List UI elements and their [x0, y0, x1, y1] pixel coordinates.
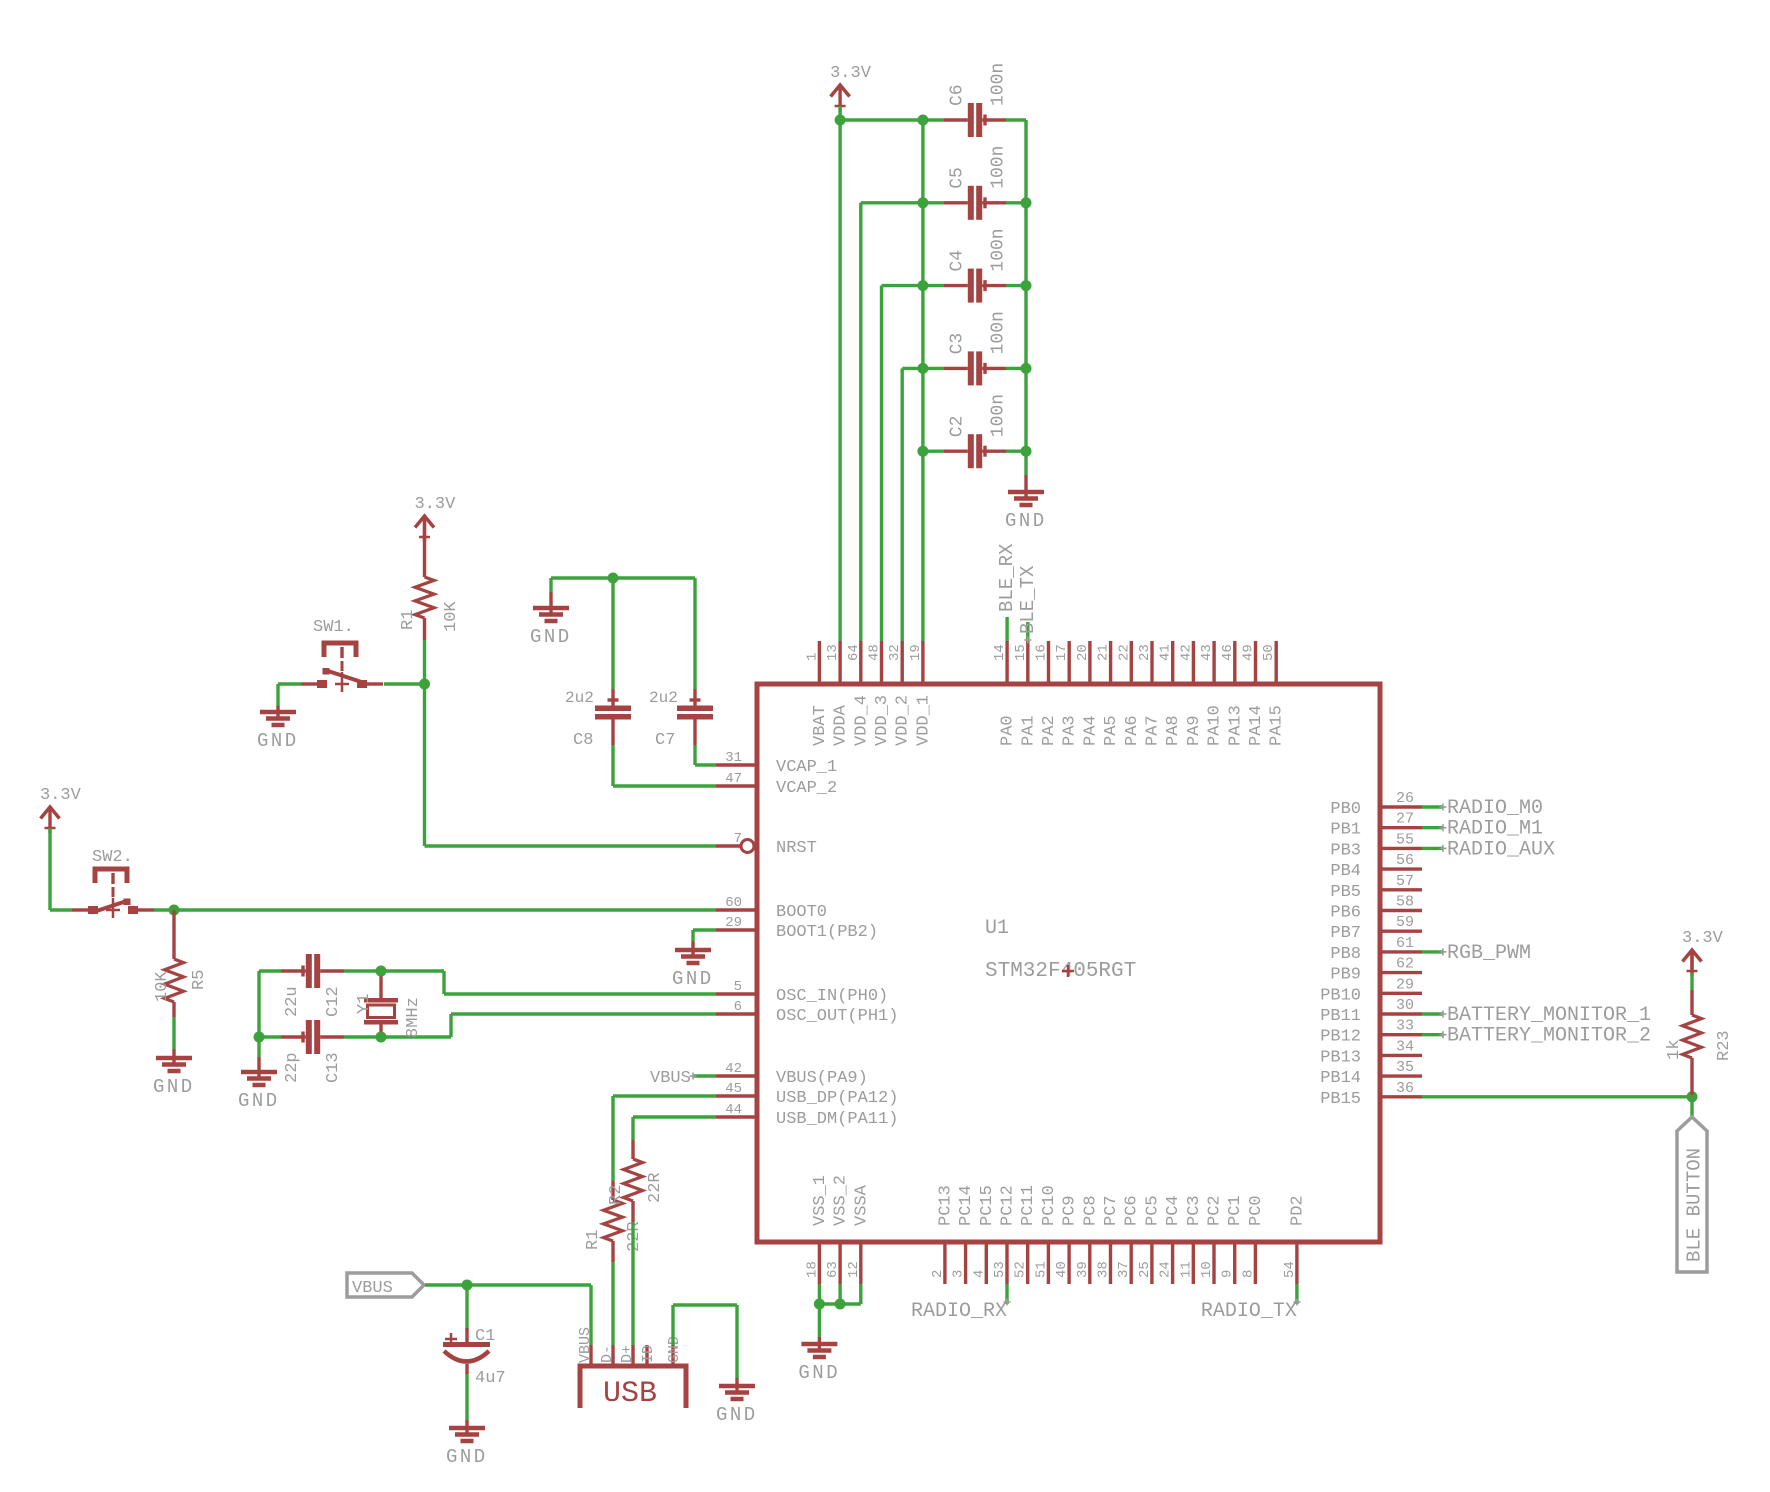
wire cap row C2 [923, 450, 1006, 453]
svg-text:PC12: PC12 [999, 1185, 1018, 1226]
svg-text:PB0: PB0 [1330, 800, 1361, 819]
svg-text:10K: 10K [153, 971, 172, 1002]
power symbol 3.3V (SW2) [40, 786, 82, 833]
svg-text:39: 39 [1075, 1261, 1091, 1278]
ground GND (cap bank) [1005, 490, 1047, 532]
svg-text:D-: D- [599, 1345, 616, 1363]
svg-text:GND: GND [798, 1362, 840, 1384]
resistor R2 22R (USB D-) [607, 1117, 665, 1345]
svg-text:VSSA: VSSA [852, 1184, 871, 1226]
svg-text:PA0: PA0 [999, 715, 1018, 746]
svg-text:100n: 100n [989, 63, 1009, 106]
svg-text:PA1: PA1 [1019, 715, 1038, 746]
svg-text:PA8: PA8 [1164, 715, 1183, 746]
svg-text:R23: R23 [1715, 1030, 1734, 1061]
capacitor C6 100n [948, 63, 1009, 137]
resistor R1 22R (USB D+) [584, 1096, 644, 1345]
svg-text:22u: 22u [283, 986, 302, 1017]
svg-text:6: 6 [734, 999, 742, 1015]
svg-text:PC13: PC13 [936, 1185, 955, 1226]
svg-text:GND: GND [716, 1404, 758, 1426]
svg-text:8: 8 [1240, 1270, 1256, 1278]
svg-text:46: 46 [1220, 644, 1236, 661]
svg-text:GND: GND [238, 1090, 280, 1112]
net label BATTERY_MONITOR_2 [1422, 1025, 1651, 1048]
resistor R5 10K [153, 910, 209, 1058]
svg-text:3.3V: 3.3V [1682, 929, 1724, 948]
svg-text:53: 53 [992, 1261, 1008, 1278]
net flag VBUS [347, 1273, 424, 1298]
wire BOOT0 net [154, 908, 716, 911]
pin PD2 (bottom) with number [1282, 1195, 1308, 1284]
svg-text:VDD_3: VDD_3 [873, 695, 892, 746]
svg-text:VCAP_2: VCAP_2 [776, 779, 837, 798]
svg-text:2u2: 2u2 [649, 689, 678, 707]
svg-text:SW2.: SW2. [92, 848, 133, 867]
svg-text:R1: R1 [584, 1230, 603, 1250]
net flag BLE BUTTON [1677, 1097, 1707, 1272]
ground GND (R5) [153, 1056, 195, 1098]
svg-text:38: 38 [1096, 1261, 1112, 1278]
svg-text:PB10: PB10 [1320, 986, 1361, 1005]
wire OSC_OUT net [344, 1014, 716, 1037]
svg-text:VDDA: VDDA [832, 704, 851, 746]
svg-text:2u2: 2u2 [565, 689, 594, 707]
svg-text:55: 55 [1396, 831, 1414, 848]
svg-text:45: 45 [725, 1081, 742, 1097]
svg-text:2: 2 [930, 1270, 946, 1278]
svg-text:VBUS: VBUS [352, 1279, 393, 1298]
op-amp U1 STM32F405RGT body [757, 684, 1380, 1242]
svg-text:33: 33 [1396, 1018, 1414, 1035]
junction node BOOT0/R5 [169, 905, 180, 916]
svg-text:RADIO_AUX: RADIO_AUX [1447, 838, 1555, 861]
svg-text:PC2: PC2 [1206, 1195, 1225, 1226]
svg-text:PB6: PB6 [1330, 904, 1361, 923]
svg-text:OSC_IN(PH0): OSC_IN(PH0) [776, 987, 888, 1006]
wire cap row C6 [840, 118, 1006, 121]
svg-text:PB9: PB9 [1330, 966, 1361, 985]
svg-text:11: 11 [1178, 1261, 1194, 1278]
svg-text:PB11: PB11 [1320, 1007, 1361, 1026]
svg-text:PD2: PD2 [1288, 1195, 1307, 1226]
svg-text:64: 64 [846, 644, 862, 661]
svg-text:100n: 100n [989, 394, 1009, 437]
svg-text:PC10: PC10 [1040, 1185, 1059, 1226]
svg-text:21: 21 [1096, 644, 1112, 661]
svg-text:RADIO_M1: RADIO_M1 [1447, 818, 1543, 841]
svg-text:OSC_OUT(PH1): OSC_OUT(PH1) [776, 1007, 898, 1026]
svg-text:STM32F405RGT: STM32F405RGT [985, 960, 1136, 983]
svg-text:RADIO_RX: RADIO_RX [911, 1300, 1007, 1323]
svg-text:R1: R1 [399, 610, 418, 630]
power symbol 3.3V (top cap bank) [830, 64, 872, 111]
svg-text:22: 22 [1116, 644, 1132, 661]
svg-text:49: 49 [1241, 644, 1257, 661]
net label RGB_PWM [1422, 942, 1531, 965]
svg-text:PC7: PC7 [1102, 1195, 1121, 1226]
svg-text:36: 36 [1396, 1080, 1414, 1097]
junction node VBUS/C1 [462, 1280, 473, 1291]
svg-text:PB5: PB5 [1330, 883, 1361, 902]
wire SW1 left to ground [278, 684, 301, 712]
svg-text:D+: D+ [619, 1345, 636, 1363]
wire cap row C3 [902, 367, 1006, 370]
svg-text:3.3V: 3.3V [415, 495, 457, 514]
svg-text:12: 12 [846, 1261, 862, 1278]
svg-text:7: 7 [734, 831, 742, 847]
wire GND bus of cap bank [1006, 120, 1026, 492]
svg-text:3.3V: 3.3V [40, 786, 82, 805]
svg-text:23: 23 [1137, 644, 1153, 661]
svg-text:RADIO_M0: RADIO_M0 [1447, 797, 1543, 820]
svg-text:42: 42 [725, 1061, 742, 1077]
svg-text:47: 47 [725, 771, 742, 787]
resistor R1 10K [399, 521, 461, 640]
capacitor C7 2u2 [649, 578, 713, 750]
pins left side (VCAP/NRST/BOOT/OSC/USB) with numbers [716, 750, 898, 1129]
svg-text:USB: USB [603, 1377, 657, 1411]
svg-text:VSS_2: VSS_2 [832, 1175, 851, 1226]
svg-text:VCAP_1: VCAP_1 [776, 758, 837, 777]
svg-text:C13: C13 [324, 1052, 343, 1083]
svg-text:16: 16 [1034, 644, 1050, 661]
svg-text:C3: C3 [948, 333, 968, 355]
svg-text:PB3: PB3 [1330, 841, 1361, 860]
pins PB0-PB15 (right side) with numbers [1320, 790, 1422, 1109]
wire VDD bus vertical [921, 120, 924, 641]
svg-text:22R: 22R [646, 1172, 665, 1203]
svg-text:PA9: PA9 [1185, 715, 1204, 746]
svg-text:10: 10 [1199, 1261, 1215, 1278]
svg-text:VBAT: VBAT [811, 705, 830, 746]
capacitor C5 100n [948, 146, 1009, 220]
pins VBAT/VDDA/VDD (top left) with numbers [804, 641, 933, 746]
svg-text:SW1.: SW1. [313, 618, 354, 637]
ground GND (BOOT1) [672, 948, 714, 990]
svg-text:3.3V: 3.3V [830, 64, 872, 83]
svg-text:VSS_1: VSS_1 [811, 1175, 830, 1226]
pins VSS (bottom left) with numbers [804, 1175, 871, 1284]
svg-text:C12: C12 [324, 986, 343, 1017]
svg-text:GND: GND [446, 1446, 488, 1468]
ground GND (VCAP) [530, 578, 572, 648]
wire VCAP_2 net [613, 745, 716, 786]
svg-text:GND: GND [672, 968, 714, 990]
svg-text:44: 44 [725, 1102, 742, 1118]
crystal Y1 8MHz [355, 973, 423, 1038]
svg-text:PC3: PC3 [1185, 1195, 1204, 1226]
net label RADIO_M0 [1422, 797, 1543, 820]
svg-text:NRST: NRST [776, 839, 817, 858]
svg-text:43: 43 [1199, 644, 1215, 661]
svg-text:1: 1 [804, 653, 820, 661]
ground GND (USB) [716, 1384, 758, 1426]
svg-text:100n: 100n [989, 311, 1009, 354]
wire cap row C5 [861, 201, 1006, 204]
svg-text:PA6: PA6 [1123, 715, 1142, 746]
svg-text:VDD_2: VDD_2 [894, 695, 913, 746]
wire VCAP top rail [551, 576, 695, 579]
net label BLE_RX [996, 543, 1018, 641]
svg-text:U1: U1 [985, 917, 1009, 940]
svg-text:PB15: PB15 [1320, 1090, 1361, 1109]
svg-text:1k: 1k [1665, 1040, 1684, 1060]
svg-text:61: 61 [1396, 935, 1414, 952]
net label BATTERY_MONITOR_1 [1422, 1004, 1651, 1027]
svg-text:41: 41 [1158, 644, 1174, 661]
svg-text:PC8: PC8 [1081, 1195, 1100, 1226]
wire GND drop (crystal) [257, 1037, 260, 1072]
wire 3.3V down to VDDA pin [838, 106, 841, 641]
svg-text:VBUS: VBUS [577, 1327, 594, 1363]
wire C1 to ground [465, 1374, 468, 1428]
svg-text:PA7: PA7 [1144, 715, 1163, 746]
svg-text:GND: GND [530, 626, 572, 648]
svg-text:22p: 22p [283, 1052, 302, 1083]
svg-text:C2: C2 [948, 416, 968, 438]
net label RADIO_TX [1201, 1284, 1301, 1323]
capacitor C4 100n [948, 228, 1009, 302]
svg-text:10K: 10K [442, 601, 461, 632]
svg-text:VBUS(PA9): VBUS(PA9) [776, 1069, 868, 1088]
svg-text:34: 34 [1396, 1038, 1414, 1055]
wire USB_DP net [613, 1094, 716, 1097]
svg-text:PC1: PC1 [1226, 1195, 1245, 1226]
svg-text:PA10: PA10 [1206, 705, 1225, 746]
svg-text:BLE BUTTON: BLE BUTTON [1684, 1148, 1706, 1262]
svg-text:PB12: PB12 [1320, 1028, 1361, 1047]
svg-text:PC5: PC5 [1143, 1195, 1162, 1226]
svg-text:59: 59 [1396, 914, 1414, 931]
svg-text:3: 3 [951, 1270, 967, 1278]
net label VBUS (PA9) [650, 1069, 716, 1088]
wire VDD_4 pin riser [859, 203, 862, 641]
svg-text:PA14: PA14 [1247, 705, 1266, 746]
svg-text:51: 51 [1033, 1261, 1049, 1278]
junction node C8 top [608, 573, 619, 584]
junction dots cap bank [835, 115, 1032, 457]
svg-text:20: 20 [1075, 644, 1091, 661]
svg-text:8MHz: 8MHz [404, 997, 423, 1038]
svg-text:VBUS: VBUS [650, 1069, 691, 1088]
wire VBUS net [425, 1285, 591, 1345]
wire OSC_IN net [344, 971, 716, 994]
svg-text:PA2: PA2 [1040, 715, 1059, 746]
svg-text:100n: 100n [989, 228, 1009, 271]
svg-text:30: 30 [1396, 997, 1414, 1014]
svg-text:PC4: PC4 [1164, 1195, 1183, 1226]
svg-text:9: 9 [1220, 1270, 1236, 1278]
wire VDD_3 pin riser [880, 286, 883, 641]
svg-text:RADIO_TX: RADIO_TX [1201, 1300, 1297, 1323]
svg-text:C7: C7 [655, 731, 675, 750]
svg-text:29: 29 [725, 915, 742, 931]
svg-text:4: 4 [971, 1270, 987, 1278]
svg-text:48: 48 [867, 644, 883, 661]
svg-text:PB13: PB13 [1320, 1048, 1361, 1067]
net label RADIO_AUX [1422, 838, 1555, 861]
svg-text:BLE_TX: BLE_TX [1017, 565, 1039, 634]
junction node PB15/R23 [1687, 1091, 1698, 1102]
svg-text:5: 5 [734, 979, 742, 995]
junction dots crystal [254, 966, 387, 1043]
svg-text:GND: GND [153, 1076, 195, 1098]
svg-text:C6: C6 [948, 84, 968, 106]
svg-text:BATTERY_MONITOR_1: BATTERY_MONITOR_1 [1447, 1004, 1651, 1027]
power symbol 3.3V (R1) [415, 495, 457, 542]
svg-text:62: 62 [1396, 956, 1414, 973]
svg-text:ID: ID [640, 1345, 657, 1363]
svg-text:Y1: Y1 [355, 994, 374, 1014]
wire NRST net [384, 640, 716, 846]
svg-text:PB7: PB7 [1330, 924, 1361, 943]
svg-text:37: 37 [1116, 1261, 1132, 1278]
svg-text:PB8: PB8 [1330, 945, 1361, 964]
svg-text:PC14: PC14 [957, 1185, 976, 1226]
svg-text:BLE_RX: BLE_RX [996, 543, 1018, 612]
svg-text:35: 35 [1396, 1059, 1414, 1076]
svg-text:R2: R2 [607, 1185, 626, 1205]
svg-text:PA3: PA3 [1061, 715, 1080, 746]
svg-text:58: 58 [1396, 894, 1414, 911]
svg-text:25: 25 [1137, 1261, 1153, 1278]
wire PB15 net [1422, 1095, 1692, 1098]
svg-text:PA4: PA4 [1081, 715, 1100, 746]
svg-text:52: 52 [1013, 1261, 1029, 1278]
resistor R23 1k [1665, 953, 1734, 1095]
svg-text:24: 24 [1158, 1261, 1174, 1278]
wire BOOT1 to ground [693, 930, 716, 950]
svg-text:14: 14 [992, 644, 1008, 661]
svg-text:GND: GND [1005, 510, 1047, 532]
svg-text:PB14: PB14 [1320, 1069, 1361, 1088]
svg-text:57: 57 [1396, 873, 1414, 890]
net label BLE_TX [1017, 565, 1039, 644]
ground GND (VSS) [798, 1342, 840, 1384]
svg-text:GND: GND [257, 730, 299, 752]
wire USB shield to ground [673, 1305, 737, 1386]
svg-text:BOOT1(PB2): BOOT1(PB2) [776, 923, 878, 942]
svg-text:50: 50 [1261, 644, 1277, 661]
wire VCAP_1 net [695, 745, 716, 765]
svg-text:C5: C5 [948, 167, 968, 189]
junction dots VSS [814, 1299, 846, 1310]
svg-text:C4: C4 [948, 250, 968, 272]
svg-text:C1: C1 [475, 1327, 495, 1346]
svg-text:26: 26 [1396, 790, 1414, 807]
pins PC0-PC15 (bottom) with numbers [930, 1185, 1266, 1284]
capacitor C8 2u2 [565, 578, 631, 750]
power symbol 3.3V (R23) [1682, 929, 1724, 976]
svg-text:63: 63 [825, 1261, 841, 1278]
ground GND (C1) [446, 1426, 488, 1468]
svg-text:PC9: PC9 [1061, 1195, 1080, 1226]
svg-text:R5: R5 [190, 970, 209, 990]
svg-text:C8: C8 [573, 731, 593, 750]
svg-text:29: 29 [1396, 976, 1414, 993]
svg-text:54: 54 [1282, 1261, 1298, 1278]
svg-text:19: 19 [908, 644, 924, 661]
wire crystal left rail [259, 971, 281, 1037]
svg-text:BATTERY_MONITOR_2: BATTERY_MONITOR_2 [1447, 1025, 1651, 1048]
svg-text:32: 32 [887, 644, 903, 661]
capacitor C12 22u [281, 954, 344, 1017]
svg-text:15: 15 [1013, 644, 1029, 661]
svg-text:60: 60 [725, 895, 742, 911]
svg-text:PB4: PB4 [1330, 862, 1361, 881]
switch SW2 [72, 848, 154, 918]
capacitor C13 22p [281, 1020, 344, 1083]
svg-text:PB1: PB1 [1330, 821, 1361, 840]
net label RADIO_RX [911, 1284, 1011, 1323]
svg-text:27: 27 [1396, 811, 1414, 828]
svg-text:13: 13 [825, 644, 841, 661]
junction node NRST/R1/SW1 [419, 679, 430, 690]
svg-text:40: 40 [1054, 1261, 1070, 1278]
svg-text:18: 18 [804, 1261, 820, 1278]
wire VDD_2 pin riser [901, 368, 904, 641]
connector USB [577, 1327, 686, 1411]
svg-text:PC6: PC6 [1123, 1195, 1142, 1226]
svg-text:4u7: 4u7 [475, 1369, 506, 1388]
wire cap row C4 [882, 284, 1007, 287]
svg-text:PC11: PC11 [1019, 1185, 1038, 1226]
pins PA0-PA15 (top right) with numbers [992, 641, 1287, 746]
svg-text:42: 42 [1178, 644, 1194, 661]
ground GND (SW1) [257, 710, 299, 752]
wire 3.3V to SW2 [50, 828, 72, 910]
svg-text:RGB_PWM: RGB_PWM [1447, 942, 1531, 965]
svg-text:17: 17 [1054, 644, 1070, 661]
capacitor C1 4u7 [443, 1285, 506, 1388]
wire USB_DM net [633, 1115, 716, 1118]
svg-text:USB_DP(PA12): USB_DP(PA12) [776, 1089, 898, 1108]
wire VSS to ground [819, 1284, 860, 1344]
svg-text:31: 31 [725, 750, 742, 766]
net label RADIO_M1 [1422, 818, 1543, 841]
svg-text:PA5: PA5 [1102, 715, 1121, 746]
svg-text:BOOT0: BOOT0 [776, 903, 827, 922]
svg-text:56: 56 [1396, 852, 1414, 869]
switch SW1 [301, 618, 383, 692]
svg-text:PA13: PA13 [1226, 705, 1245, 746]
svg-text:PC15: PC15 [978, 1185, 997, 1226]
svg-text:PC0: PC0 [1247, 1195, 1266, 1226]
svg-text:VDD_4: VDD_4 [852, 695, 871, 746]
capacitor C3 100n [948, 311, 1009, 385]
svg-text:100n: 100n [989, 146, 1009, 189]
ground GND (crystal) [238, 1070, 280, 1112]
svg-text:USB_DM(PA11): USB_DM(PA11) [776, 1110, 898, 1129]
capacitor C2 100n [948, 394, 1009, 468]
svg-text:PA15: PA15 [1268, 705, 1287, 746]
svg-text:VDD_1: VDD_1 [914, 695, 933, 746]
